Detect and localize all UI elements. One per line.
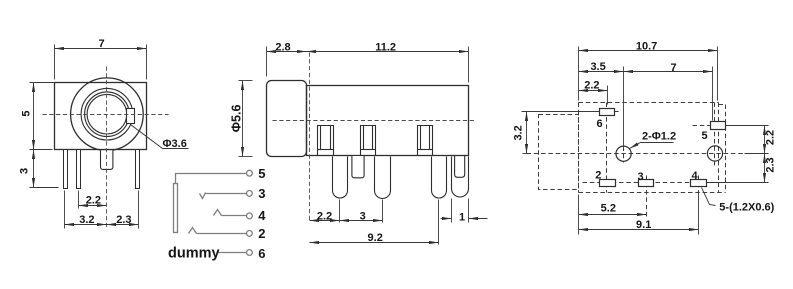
ext 2.2 right col top [726,125,769,127]
wire node 2 [197,233,247,235]
ext 7 right [712,67,714,121]
dim 7 line [624,71,713,73]
svg-text:3.2: 3.2 [512,125,524,140]
svg-text:5: 5 [258,166,265,181]
ext left column [578,47,580,101]
inner ring circle 1 [81,88,133,140]
dim 11.2 line [307,51,469,53]
ext leg2 center [382,200,384,223]
ext 2.2 right [607,86,609,105]
extension pin2 center [78,191,80,209]
outline right inner [718,103,720,193]
dim 10.7 line [579,50,718,52]
terminal circle 6 [247,250,253,256]
dim 7 extension lines [54,45,56,80]
pad5 horizontal centerline dashes [693,125,727,127]
ext 2.3 centerline right [745,153,769,155]
ext right 10.7 [717,47,719,101]
svg-text:3.2: 3.2 [79,214,94,226]
ext 9.1 right below pad4 [698,193,700,235]
front body rectangle [55,83,147,150]
front view dimensions [30,45,189,229]
svg-text:6: 6 [258,246,265,261]
contact peak node 2 [189,228,197,234]
slot 2 [361,126,376,156]
dim 9.2 line [310,242,439,244]
svg-text:5: 5 [20,110,32,116]
dim 5.2 line [579,214,647,216]
terminal circle 5 [247,170,253,176]
hole circle phi3.6 [87,94,127,134]
svg-text:2.2: 2.2 [317,210,332,222]
pad 4 [691,180,707,187]
ext leg3 center [438,200,440,245]
footprint outline dashed [527,103,745,217]
wire node 4 [222,215,247,217]
outline right outer [725,105,727,193]
svg-text:10.7: 10.7 [636,41,657,53]
side right leg outer [452,157,469,198]
front center tab [101,150,113,169]
dim 7 line [55,48,147,50]
main horizontal centerline [527,153,745,155]
ext pads row right [707,182,769,184]
svg-text:Φ5.6: Φ5.6 [229,105,243,133]
svg-text:6: 6 [596,118,602,130]
dim 3 bottom tick [30,187,59,189]
svg-text:2-Φ1.2: 2-Φ1.2 [642,131,676,143]
outline bottom [579,192,726,194]
svg-text:dummy: dummy [168,245,220,261]
pad6 center extension to 3.2 dim [522,111,600,113]
pad4 vertical centerline [698,176,700,193]
svg-text:3: 3 [18,168,30,174]
side leg 3 [432,157,447,199]
dim 1 left tail [441,218,452,220]
dim 3 line [33,150,35,188]
boundary extension dashed line [309,53,311,223]
pad 3 [639,180,654,187]
svg-text:2.8: 2.8 [275,41,290,53]
notch rectangle on ring [127,109,135,124]
pad 6 [600,109,615,116]
wire node 3 [206,193,247,195]
side leg 1 [333,157,348,199]
outer barrel circle [71,78,144,151]
inner ring circle 2 [85,92,130,137]
dim 2.2 top line [579,90,608,92]
dim 2.3 right line [764,154,766,183]
slot 3 [418,126,433,156]
plug bar [174,184,178,233]
ext right leg left [451,199,453,223]
svg-text:2.2: 2.2 [584,79,599,91]
dim 3.2 line [65,224,107,226]
svg-text:Φ3.6: Φ3.6 [163,138,187,150]
svg-text:2: 2 [595,169,601,181]
outline left [578,103,580,193]
svg-text:2: 2 [258,226,265,241]
side view dim texts [229,41,465,244]
side view centerline [273,53,477,223]
vertical centerline [106,67,108,229]
svg-text:9.2: 9.2 [368,232,383,244]
svg-text:5: 5 [701,130,707,142]
slot 1 [318,126,334,156]
dim 2.8 line [267,51,307,53]
outline top [579,102,719,104]
dim 2.2 line [310,220,340,222]
terminal circle 3 [247,191,253,197]
hole circle 2 [707,146,722,161]
hole circle 1 [616,146,631,161]
svg-text:3: 3 [360,210,366,222]
dim 1 right tail [469,218,488,220]
footprint dimensions [522,47,769,235]
dim 2.2 right line [764,126,766,154]
svg-text:3: 3 [637,171,643,183]
dim phi5.6 ticks [239,80,253,82]
front view centerlines [43,67,169,229]
side leg 2 [375,157,391,199]
ext right leg right [468,199,470,223]
ext barrel left [266,47,268,77]
extension pin1 center [64,191,66,229]
svg-text:4: 4 [258,208,266,223]
ext bottom left column [578,195,580,235]
front view dim texts [18,38,187,226]
pad 5 [711,122,726,130]
dim 3.2 bottom tick [523,153,531,155]
pad 2 [600,180,616,187]
svg-text:1: 1 [459,212,465,224]
front pin 3 [136,150,140,189]
horizontal centerline [43,114,169,116]
ext leg1 center [339,200,341,223]
side right leg inner [455,156,465,177]
svg-text:3.5: 3.5 [590,61,605,73]
svg-text:3: 3 [258,186,265,201]
horizontal centerline [273,120,477,122]
footprint texts [512,41,776,232]
svg-text:2.3: 2.3 [116,214,131,226]
pad3 vertical centerline [646,176,648,217]
svg-text:9.1: 9.1 [636,219,651,231]
dim 3.2 line [526,112,528,154]
pad6 pad2 vertical centerline [606,103,608,193]
barrel outline box [539,115,579,190]
outline right step top [719,104,726,106]
svg-text:2.2: 2.2 [764,130,776,145]
contact v node 3 [200,193,206,199]
dim 2.2 line [79,205,107,207]
contact peak node 4 [214,210,222,216]
wire node 6 [218,252,247,254]
dim 2.3 line [107,224,139,226]
leader 5-slots [702,188,716,206]
leader 2-phi1.2 [630,143,674,149]
dim 5 ticks [30,82,55,84]
svg-text:11.2: 11.2 [375,41,396,53]
hole circle 1 center mark [623,147,625,163]
dim 3.5 line [579,71,624,73]
svg-text:7: 7 [671,62,677,74]
svg-text:5-(1.2X0.6): 5-(1.2X0.6) [719,201,774,213]
wire node 5 [176,174,247,184]
svg-text:2.3: 2.3 [764,157,776,172]
svg-text:4: 4 [692,170,699,182]
svg-text:5.2: 5.2 [601,203,616,215]
pad6 horizontal centerline dashes [600,111,621,113]
front pin 1 [64,150,68,189]
dim 3 line [340,220,383,222]
leader phi3.6 [131,125,189,149]
footprint pads and holes [600,109,726,187]
side body rectangle [307,86,469,156]
dim phi5.6 line [242,81,244,157]
svg-text:7: 7 [98,38,104,50]
terminal circle 2 [247,231,253,237]
svg-text:2.2: 2.2 [86,195,101,207]
barrel cylinder [267,81,307,157]
pad5 circle2 vertical centerline [714,103,716,167]
extension pin3 center [138,191,140,229]
pads row horizontal centerline [583,182,713,184]
ext body right top [468,47,470,83]
dim 9.1 line [579,229,699,231]
side short middle leg [352,156,364,178]
side view dimensions [239,47,488,245]
front pin 2 [77,150,81,189]
ext 3.5/7 middle [623,67,625,147]
dim 5 line [33,83,35,150]
terminal circle 4 [247,213,253,219]
